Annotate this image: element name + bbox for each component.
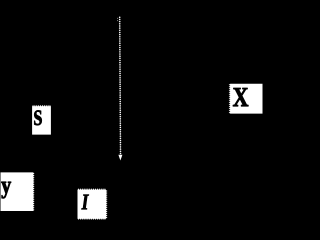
letter l: [81, 195, 88, 210]
arrowhead: [118, 155, 122, 161]
box X (white crop, sawtooth left edge): [229, 84, 263, 114]
box l (white crop, sawtooth top/right/bottom edges): [78, 188, 108, 220]
dotted guide line (vertical, dotted): [119, 17, 121, 155]
letter X: [233, 88, 248, 106]
letter s: [34, 110, 42, 125]
box y (white crop, sawtooth right edge): [1, 172, 35, 211]
letter y: [1, 182, 11, 199]
faint double dots at line start: [117, 18, 118, 21]
box s (white crop, sawtooth top edge): [32, 105, 51, 135]
